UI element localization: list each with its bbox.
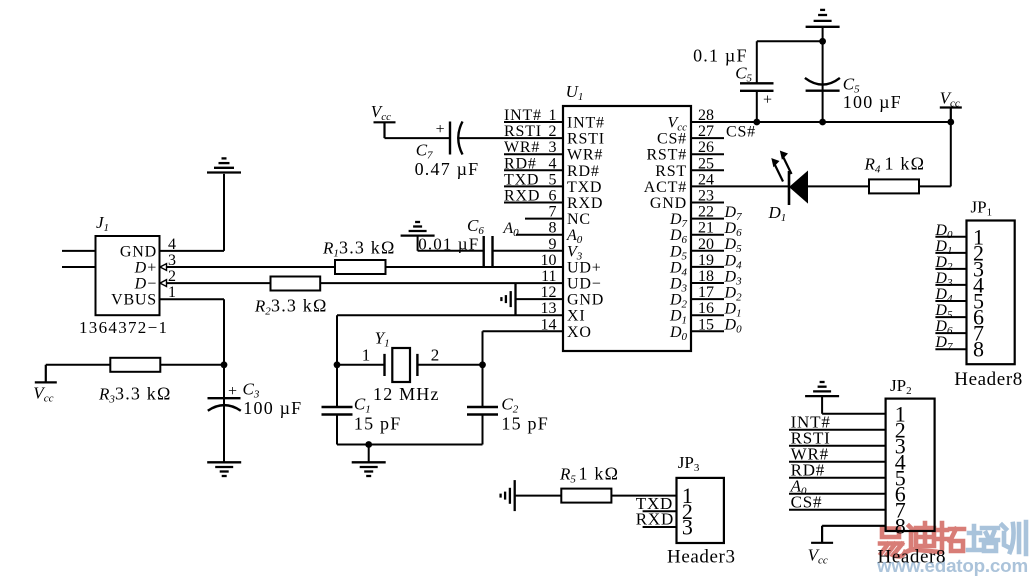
resistor R2: [254, 277, 328, 318]
svg-text:8: 8: [549, 220, 557, 237]
wire C6 to U1 pin9 V3: [493, 236, 564, 253]
svg-text:XO: XO: [567, 324, 592, 341]
wire/net D7 U1 pin22: [691, 204, 742, 223]
wire Y1 pin1: [337, 346, 385, 365]
wire/net A0 JP2 pin6: [789, 476, 886, 497]
svg-text:RST#: RST#: [646, 147, 687, 164]
svg-text:28: 28: [698, 107, 714, 124]
svg-text:16: 16: [698, 300, 714, 317]
svg-text:1 kΩ: 1 kΩ: [579, 464, 620, 484]
ground (JP2 pin1): [805, 382, 886, 414]
wire/net RSTI JP2 pin3: [789, 428, 886, 447]
svg-text:12 MHz: 12 MHz: [373, 384, 440, 404]
svg-text:CS#: CS#: [657, 131, 687, 148]
LED D1: [768, 151, 809, 224]
wire VBUS J1 pin1 to node: [160, 299, 225, 365]
wire R5 to JP3 pin1: [611, 495, 676, 497]
wire/net D5 U1 pin20: [691, 236, 742, 255]
svg-text:D−: D−: [134, 276, 157, 293]
svg-text:RSTI: RSTI: [504, 123, 542, 140]
header JP1: [954, 198, 1023, 391]
svg-text:0.47 µF: 0.47 µF: [415, 159, 480, 179]
svg-text:GND: GND: [567, 292, 604, 309]
svg-text:1364372−1: 1364372−1: [79, 318, 168, 337]
svg-text:RSTI: RSTI: [567, 131, 605, 148]
wire/net WR# U1 pin3: [504, 139, 563, 156]
wire/net D4 JP1 pin5: [934, 286, 966, 305]
wire/net D5 JP1 pin6: [934, 302, 966, 321]
svg-text:2: 2: [431, 346, 440, 365]
wire/net D3 JP1 pin4: [934, 270, 966, 289]
wire XO U1 pin14 to crystal: [483, 316, 564, 365]
wire U1 pin23: [691, 188, 724, 205]
wire Vcc to R4: [919, 122, 951, 186]
svg-text:1: 1: [549, 107, 557, 124]
resistor R1: [322, 238, 396, 275]
svg-text:0.01 µF: 0.01 µF: [418, 235, 479, 254]
ground (R5/JP3): [501, 480, 515, 511]
header JP3: [667, 453, 736, 568]
power Vcc (C7): [371, 102, 396, 138]
svg-text:3.3 kΩ: 3.3 kΩ: [115, 384, 172, 404]
svg-text:VBUS: VBUS: [111, 292, 157, 309]
svg-text:RD#: RD#: [504, 155, 537, 172]
wire R4 to LED: [808, 185, 870, 187]
wire Vcc to C7: [385, 137, 451, 139]
wire Vcc to R3: [46, 364, 111, 366]
svg-text:4: 4: [549, 155, 557, 172]
wire/net D1 JP1 pin2: [934, 238, 966, 257]
svg-text:2: 2: [549, 123, 557, 140]
wire/net A0 U1 pin8: [502, 220, 563, 239]
wire J1 shield stubs: [62, 251, 96, 267]
svg-text:15 pF: 15 pF: [501, 414, 549, 434]
svg-text:0.1 µF: 0.1 µF: [693, 46, 748, 66]
svg-text:5: 5: [549, 171, 557, 188]
svg-text:20: 20: [698, 236, 714, 253]
svg-text:100 µF: 100 µF: [243, 398, 302, 418]
svg-text:9: 9: [549, 236, 557, 253]
wire ground to C6: [418, 250, 484, 252]
wire C5 top link: [757, 40, 823, 42]
wire/net WR# JP2 pin4: [789, 444, 886, 463]
capacitor C5 0.1uF: [693, 41, 773, 122]
capacitor C5 100uF: [805, 41, 902, 122]
svg-text:13: 13: [541, 300, 557, 317]
wire U1 pin7: [525, 204, 563, 221]
node XI/C1: [334, 361, 341, 368]
svg-text:INT#: INT#: [567, 115, 605, 132]
wire R3 to node: [160, 364, 224, 366]
wire/net D0 JP1 pin1: [934, 222, 966, 241]
svg-text:27: 27: [698, 123, 714, 140]
svg-text:RXD: RXD: [567, 195, 603, 212]
wire Vcc rail U1 pin28: [691, 107, 951, 124]
node C5a/rail: [753, 119, 760, 126]
svg-text:18: 18: [698, 268, 714, 285]
svg-text:TXD: TXD: [504, 171, 539, 188]
wire R2 to U1 pin11 UD-: [320, 282, 563, 284]
node VBUS/R3/C3: [221, 361, 228, 368]
svg-text:ACT#: ACT#: [644, 179, 687, 196]
wire U1 pin25: [691, 155, 724, 172]
svg-text:GND: GND: [650, 195, 687, 212]
resistor R5: [559, 464, 619, 503]
svg-text:25: 25: [698, 155, 714, 172]
node C5 ground link: [819, 38, 826, 45]
svg-text:+: +: [436, 121, 445, 138]
wire/net RD# U1 pin4: [504, 155, 563, 172]
wire/net RSTI C7 to U1 pin2: [460, 123, 564, 140]
capacitor C7: [415, 121, 480, 179]
svg-text:8: 8: [895, 513, 906, 538]
svg-text:8: 8: [973, 337, 984, 362]
wire XI U1 pin13 to crystal: [337, 300, 563, 365]
svg-text:NC: NC: [567, 211, 591, 228]
svg-text:15 pF: 15 pF: [354, 414, 402, 434]
wire Y1 pin2: [417, 346, 482, 365]
svg-text:23: 23: [698, 188, 714, 205]
wire/net D0 U1 pin15: [691, 316, 742, 335]
ground (C6): [401, 222, 435, 251]
wire/net D7 JP1 pin8: [934, 334, 966, 353]
header JP2: [878, 376, 947, 568]
svg-text:CS#: CS#: [791, 492, 823, 511]
svg-text:15: 15: [698, 316, 714, 333]
svg-text:21: 21: [698, 220, 714, 237]
power Vcc (JP2 pin8): [808, 526, 886, 567]
svg-text:Header8: Header8: [954, 369, 1023, 390]
svg-text:TXD: TXD: [567, 179, 602, 196]
svg-text:3.3 kΩ: 3.3 kΩ: [271, 296, 328, 316]
svg-text:1: 1: [362, 346, 371, 365]
svg-text:RXD: RXD: [504, 188, 540, 205]
wire/net D3 U1 pin18: [691, 268, 742, 287]
svg-text:26: 26: [698, 139, 714, 156]
wire/net D1 U1 pin16: [691, 300, 742, 319]
wire/net INT# U1 pin1: [504, 107, 563, 124]
wire/net RXD JP3 pin3: [636, 510, 677, 529]
wire/net INT# JP2 pin2: [789, 412, 886, 431]
ground (U1 pin12 GND): [501, 284, 563, 315]
svg-text:UD−: UD−: [567, 276, 602, 293]
svg-text:1 kΩ: 1 kΩ: [885, 154, 926, 174]
wire/net RD# JP2 pin5: [789, 460, 886, 479]
svg-text:RXD: RXD: [636, 510, 674, 529]
svg-text:11: 11: [541, 268, 556, 285]
wire D- J1 pin2 to R2: [160, 280, 271, 287]
svg-text:D+: D+: [134, 260, 157, 277]
svg-text:12: 12: [541, 284, 557, 301]
crystal Y1 12 MHz: [373, 329, 440, 405]
ground (C5): [806, 10, 840, 41]
wire/net D4 U1 pin19: [691, 252, 742, 271]
svg-text:GND: GND: [120, 243, 157, 260]
svg-text:XI: XI: [567, 308, 585, 325]
wire/net CS# JP2 pin7: [789, 492, 886, 511]
wire/net D6 U1 pin21: [691, 220, 742, 239]
svg-text:CS#: CS#: [726, 123, 756, 140]
svg-text:6: 6: [549, 188, 557, 205]
wire LED to U1 pin24 ACT#: [691, 171, 789, 188]
svg-text:100 µF: 100 µF: [843, 92, 902, 112]
svg-text:Header3: Header3: [667, 547, 736, 568]
svg-text:WR#: WR#: [504, 139, 540, 156]
wire/net D2 JP1 pin3: [934, 254, 966, 273]
node XO/C2: [479, 361, 486, 368]
capacitor C6: [418, 216, 492, 266]
svg-text:+: +: [763, 92, 772, 109]
wire C1/C2 ground bus: [337, 444, 483, 446]
svg-text:INT#: INT#: [504, 107, 542, 124]
node ground bus: [365, 441, 372, 448]
svg-text:UD+: UD+: [567, 259, 602, 276]
svg-text:22: 22: [698, 204, 714, 221]
resistor R4: [864, 154, 926, 194]
ground (crystal): [352, 445, 386, 477]
wire D+ J1 pin3 to R1: [160, 264, 335, 271]
wire/net TXD JP3 pin2: [636, 494, 677, 513]
svg-text:RD#: RD#: [567, 163, 600, 180]
ground (J1 GND): [207, 158, 241, 172]
svg-text:WR#: WR#: [567, 147, 603, 164]
svg-text:24: 24: [698, 171, 714, 188]
power Vcc (R3): [33, 365, 57, 405]
wire/net D6 JP1 pin7: [934, 318, 966, 337]
IC U1: [563, 82, 691, 351]
svg-text:3.3 kΩ: 3.3 kΩ: [339, 238, 396, 258]
wire ground to R5: [515, 495, 562, 497]
wire R1 to U1 pin10 UD+: [386, 266, 564, 268]
svg-text:7: 7: [549, 204, 557, 221]
svg-text:+: +: [228, 383, 237, 400]
watermark: [876, 522, 1028, 576]
svg-text:Header8: Header8: [878, 547, 947, 568]
capacitor C1: [322, 365, 402, 445]
wire/net RXD U1 pin6: [504, 188, 563, 205]
connector J1: [79, 213, 176, 337]
svg-text:3: 3: [682, 515, 693, 540]
svg-text:14: 14: [541, 316, 557, 333]
wire J1 GND pin4 to ground: [160, 174, 225, 251]
node C5b/rail: [819, 119, 826, 126]
capacitor C2: [467, 365, 549, 445]
svg-text:19: 19: [698, 252, 714, 269]
wire U1 pin26: [691, 139, 724, 156]
capacitor C3: [208, 365, 303, 462]
svg-text:17: 17: [698, 284, 714, 301]
wire/net CS# U1 pin27: [691, 123, 756, 140]
wire/net TXD U1 pin5: [504, 171, 563, 188]
resistor R3: [98, 358, 172, 406]
svg-text:RST: RST: [655, 163, 687, 180]
ground (C3): [207, 462, 241, 476]
power Vcc (rail): [940, 89, 962, 123]
wire/net D2 U1 pin17: [691, 284, 742, 303]
svg-text:10: 10: [541, 252, 557, 269]
svg-text:3: 3: [549, 139, 557, 156]
node Vcc/rail: [947, 119, 954, 126]
